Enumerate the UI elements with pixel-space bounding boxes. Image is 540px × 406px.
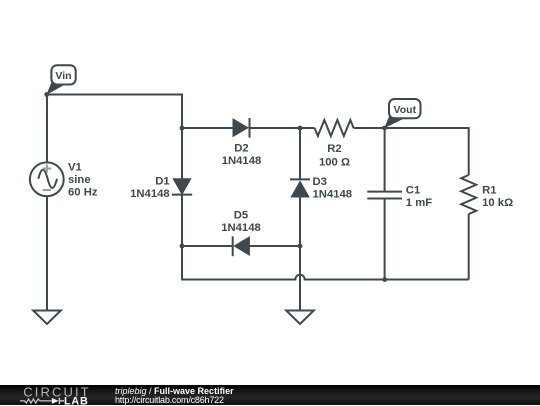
diode D1 — [172, 179, 192, 195]
junction D5 right — [298, 244, 303, 249]
ground at middle column — [286, 311, 314, 325]
junction left column / main rail — [180, 126, 185, 131]
footer title text — [115, 387, 234, 397]
svg-text:Vout: Vout — [394, 104, 417, 116]
svg-text:LAB: LAB — [64, 395, 89, 406]
junction Vin node — [44, 92, 49, 97]
svg-text:D2: D2 — [234, 143, 248, 155]
ground at V1 — [33, 311, 61, 325]
svg-text:R1: R1 — [482, 185, 496, 197]
wire top rail Vin to corner — [47, 95, 182, 129]
diode D3 — [290, 179, 310, 197]
svg-text:100 Ω: 100 Ω — [319, 156, 350, 168]
wire V1 top lead — [46, 95, 48, 163]
junction Vout node — [382, 126, 387, 131]
junction node B (D2-D3-R2) — [298, 126, 303, 131]
svg-text:1N4148: 1N4148 — [130, 188, 170, 200]
diode D5 — [233, 236, 250, 256]
voltage source V1 — [30, 162, 64, 196]
node flag Vin — [46, 65, 75, 95]
wire middle column node B to D3 cathode — [299, 128, 301, 179]
wire D5 anode to middle node — [249, 245, 300, 247]
wire R1 bottom lead to bottom rail — [468, 214, 470, 280]
svg-text:C1: C1 — [406, 184, 420, 196]
wire middle column D3 anode down to ground — [299, 197, 301, 311]
resistor R2 — [315, 120, 354, 136]
wire V1 bottom lead — [46, 196, 48, 311]
footer url text — [115, 396, 224, 406]
wire node Vout to right corner, down to R1 — [385, 128, 469, 175]
wire D2 cathode to node B — [250, 127, 300, 129]
svg-text:V1: V1 — [68, 162, 82, 174]
diode D2 — [233, 118, 250, 138]
svg-text:1N4148: 1N4148 — [222, 155, 262, 167]
svg-text:D1: D1 — [155, 176, 169, 188]
wire C1 top lead — [384, 128, 386, 192]
CircuitLab logo — [0, 385, 110, 406]
svg-text:60 Hz: 60 Hz — [68, 187, 98, 199]
node flag Vout — [384, 99, 420, 128]
wire main rail left: node to D2 anode — [182, 127, 233, 129]
wire D5 left node to D5 cathode bar — [182, 245, 233, 247]
footer bar — [0, 385, 540, 406]
svg-text:Vin: Vin — [55, 70, 71, 82]
svg-text:sine: sine — [68, 174, 91, 186]
junction D5 left — [180, 244, 185, 249]
svg-text:1N4148: 1N4148 — [221, 222, 261, 234]
svg-text:1N4148: 1N4148 — [313, 188, 353, 200]
wire left column D1 cathode down to D5 node — [181, 195, 183, 280]
wire R2 right to node Vout — [354, 127, 385, 129]
wire C1 bottom lead — [384, 199, 386, 280]
svg-text:R2: R2 — [327, 143, 341, 155]
svg-text:10 kΩ: 10 kΩ — [482, 197, 513, 209]
junction C1 bottom — [382, 277, 387, 282]
capacitor C1 — [367, 192, 402, 199]
wire node B to R2 left — [300, 127, 315, 129]
svg-text:D3: D3 — [313, 176, 327, 188]
wire bottom rail with hop over middle column — [182, 246, 469, 280]
wire left column D1 top lead — [181, 128, 183, 179]
resistor R1 — [461, 175, 476, 214]
svg-text:D5: D5 — [234, 209, 248, 221]
svg-text:1 mF: 1 mF — [406, 197, 432, 209]
